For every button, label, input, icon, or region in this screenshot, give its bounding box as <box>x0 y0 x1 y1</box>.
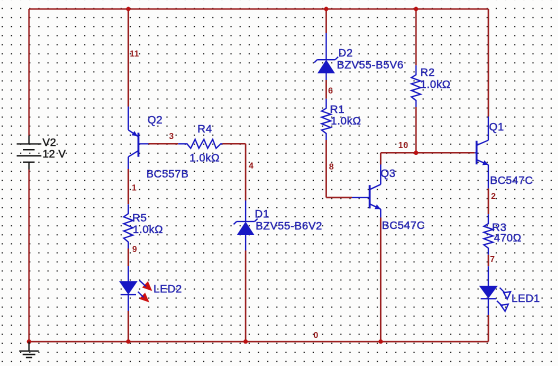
svg-text:R4: R4 <box>198 124 213 136</box>
svg-text:BC557B: BC557B <box>146 169 188 181</box>
svg-text:1.0kΩ: 1.0kΩ <box>420 79 450 91</box>
svg-text:1.0kΩ: 1.0kΩ <box>331 115 361 127</box>
svg-text:7: 7 <box>490 254 495 264</box>
svg-text:LED2: LED2 <box>154 284 183 296</box>
svg-text:R2: R2 <box>420 67 435 79</box>
svg-text:10: 10 <box>398 140 408 150</box>
svg-text:R1: R1 <box>330 104 345 116</box>
svg-text:Q2: Q2 <box>148 115 163 127</box>
svg-text:4: 4 <box>249 160 254 170</box>
svg-text:2: 2 <box>491 191 496 201</box>
svg-text:R5: R5 <box>132 213 147 225</box>
svg-text:8: 8 <box>329 162 334 172</box>
svg-text:D2: D2 <box>338 47 353 59</box>
svg-text:BZV55-B6V2: BZV55-B6V2 <box>256 221 323 233</box>
svg-text:1.0kΩ: 1.0kΩ <box>133 224 163 236</box>
svg-text:BC547C: BC547C <box>382 220 425 232</box>
svg-text:12 V: 12 V <box>43 148 67 160</box>
svg-text:0: 0 <box>314 330 319 340</box>
svg-text:V2: V2 <box>43 137 57 149</box>
svg-text:1: 1 <box>132 183 137 193</box>
svg-text:BC547C: BC547C <box>490 175 533 187</box>
svg-text:D1: D1 <box>255 209 270 221</box>
svg-text:Q1: Q1 <box>489 122 504 134</box>
svg-text:9: 9 <box>132 244 137 254</box>
svg-text:11: 11 <box>130 48 140 58</box>
svg-text:1.0kΩ: 1.0kΩ <box>190 153 220 165</box>
svg-text:Q3: Q3 <box>381 168 396 180</box>
svg-text:LED1: LED1 <box>512 293 541 305</box>
svg-text:470Ω: 470Ω <box>494 233 522 245</box>
svg-text:BZV55-B5V6: BZV55-B5V6 <box>337 60 404 72</box>
svg-text:6: 6 <box>328 85 333 95</box>
svg-text:3: 3 <box>169 131 174 141</box>
